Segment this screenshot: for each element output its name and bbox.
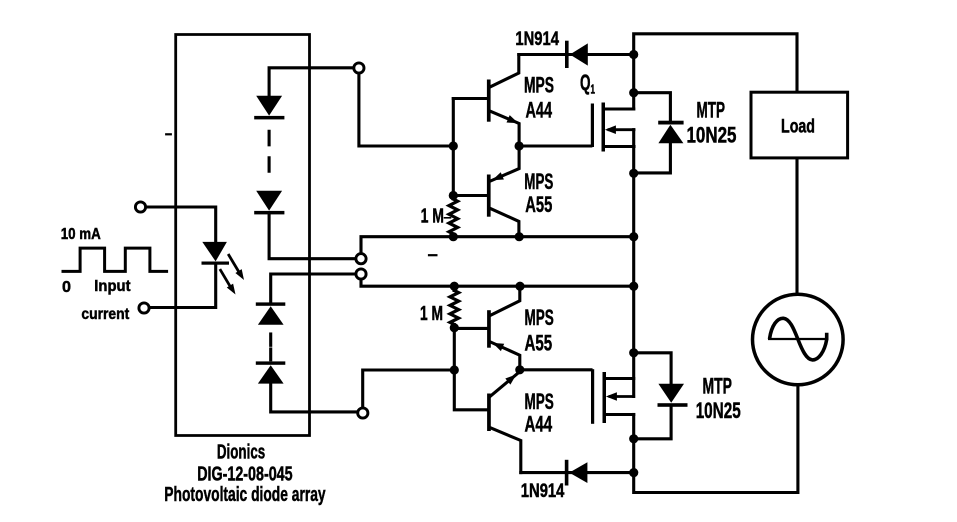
- svg-text:0: 0: [62, 279, 71, 296]
- svg-text:MTP: MTP: [703, 373, 733, 398]
- svg-text:DIG-12-08-045: DIG-12-08-045: [197, 464, 292, 486]
- svg-text:Dionics: Dionics: [217, 442, 265, 464]
- svg-text:10N25: 10N25: [687, 122, 737, 147]
- svg-text:10N25: 10N25: [696, 398, 741, 423]
- svg-text:MPS: MPS: [524, 169, 553, 194]
- svg-text:Input: Input: [94, 278, 131, 295]
- svg-text:1 M: 1 M: [420, 303, 443, 325]
- svg-text:MTP: MTP: [697, 97, 726, 122]
- svg-text:A44: A44: [526, 98, 553, 123]
- svg-text:A55: A55: [525, 192, 552, 217]
- svg-text:10 mA: 10 mA: [61, 226, 101, 243]
- svg-text:A55: A55: [525, 331, 553, 356]
- svg-text:Photovoltaic diode array: Photovoltaic diode array: [164, 484, 326, 506]
- svg-text:MPS: MPS: [525, 305, 554, 330]
- svg-text:MPS: MPS: [525, 389, 554, 414]
- svg-text:1: 1: [591, 82, 596, 97]
- svg-text:1N914: 1N914: [521, 481, 565, 502]
- svg-text:A44: A44: [525, 412, 553, 437]
- svg-text:1 M: 1 M: [421, 206, 444, 228]
- svg-text:1N914: 1N914: [515, 29, 559, 50]
- svg-text:Load: Load: [781, 117, 815, 138]
- svg-text:MPS: MPS: [524, 73, 554, 98]
- svg-text:current: current: [81, 306, 129, 323]
- svg-text:Q: Q: [580, 70, 591, 95]
